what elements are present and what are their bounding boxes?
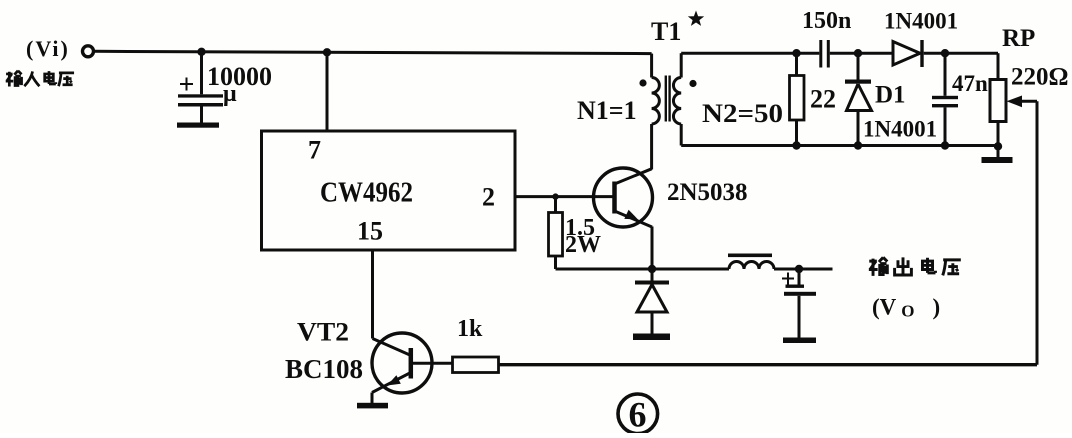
svg-text:7: 7 [308, 136, 321, 165]
op-amp U1 CW4962 box [262, 131, 516, 250]
svg-text:BC108: BC108 [285, 354, 363, 384]
wire pin2 to base [515, 195, 614, 198]
wire feedback bottom horizontal [499, 363, 1038, 366]
transformer T1 secondary [673, 53, 681, 145]
diode D1 1N4001 shunt [845, 53, 872, 145]
node output cap junction [795, 265, 803, 273]
svg-text:VT2: VT2 [297, 318, 349, 347]
input terminal (Vi) [83, 46, 94, 57]
svg-text:μ: μ [223, 81, 237, 107]
node pin7 junction [323, 48, 331, 56]
wire top rail [94, 51, 652, 53]
node RP bottom junction [994, 142, 1002, 150]
svg-text:2W: 2W [565, 232, 601, 258]
capacitor C4 47n [932, 53, 958, 145]
resistor R3 1k [453, 357, 499, 373]
resistor R2 22 [790, 53, 805, 145]
capacitor C1 10000u [178, 52, 223, 123]
svg-text:N2=50: N2=50 [702, 99, 783, 128]
transistor Q1 2N5038 [594, 168, 653, 269]
node 22 bottom junction [792, 141, 800, 149]
svg-text:1N4001: 1N4001 [884, 9, 958, 34]
svg-text:15: 15 [357, 217, 383, 246]
svg-text:(VO): (VO) [872, 295, 940, 321]
node 47n bottom junction [941, 141, 949, 149]
svg-text:47n: 47n [952, 71, 988, 96]
wire secondary bottom rail [681, 144, 998, 147]
ground under C1 [177, 123, 219, 128]
wire emitter rail left [556, 268, 653, 271]
label 1.5 2W [565, 215, 601, 258]
svg-text:RP: RP [1002, 25, 1035, 52]
svg-text:6: 6 [629, 395, 647, 434]
capacitor C2 150n [819, 40, 830, 68]
svg-text:1N4001: 1N4001 [863, 117, 937, 142]
svg-text:CW4962: CW4962 [320, 178, 413, 209]
svg-text:220Ω: 220Ω [1011, 64, 1069, 91]
node emitter junction [648, 265, 656, 273]
ground under VT2 [357, 403, 388, 409]
diode D3 series 1N4001 [893, 40, 924, 67]
node D1 top junction [854, 49, 862, 57]
svg-text:2: 2 [482, 183, 495, 212]
svg-text:D1: D1 [875, 82, 906, 109]
figure number 6 [618, 394, 658, 435]
diode D2 freewheel [635, 269, 669, 334]
transformer T1 primary [652, 54, 660, 124]
label 输入电压 [6, 71, 74, 87]
transformer core [665, 76, 671, 122]
wire cap to diode [830, 52, 893, 55]
svg-text:150n: 150n [802, 8, 851, 34]
wire primary bottom to collector [650, 124, 653, 170]
svg-text:N1=1: N1=1 [577, 96, 637, 125]
wire RP top [997, 53, 1000, 79]
node secondary polarity dot [689, 80, 696, 87]
svg-text:1k: 1k [457, 316, 483, 342]
transistor Q2 VT2 BC108 [372, 333, 453, 403]
capacitor C3 output [782, 269, 816, 338]
wire pin15 down [371, 250, 374, 339]
node primary polarity dot [639, 79, 646, 86]
node D1 bottom junction [854, 141, 862, 149]
wire diode to RP [924, 52, 998, 55]
node base resistor junction [552, 193, 558, 199]
wire pin7 [326, 52, 329, 131]
wire secondary top rail [681, 52, 819, 55]
inductor L1 [652, 254, 833, 270]
svg-text:22: 22 [810, 85, 836, 114]
svg-text:T1: T1 [651, 17, 681, 46]
node input cap junction [197, 48, 205, 56]
label 10000u [207, 62, 272, 107]
wire feedback right vertical [1036, 101, 1039, 364]
ground under C3 [783, 338, 816, 344]
svg-text:10000: 10000 [207, 62, 272, 91]
ground under D2 [633, 334, 670, 341]
potentiometer RP [990, 80, 1037, 147]
node 22 top junction [792, 49, 800, 57]
ground under RP [982, 146, 1013, 163]
node 47n top junction [941, 49, 949, 57]
svg-text:2N5038: 2N5038 [667, 179, 748, 206]
svg-text:(Vi): (Vi) [26, 36, 70, 61]
label star [688, 11, 704, 26]
resistor R1 1.5 2W [549, 197, 563, 269]
label 输出电压 [869, 257, 961, 275]
